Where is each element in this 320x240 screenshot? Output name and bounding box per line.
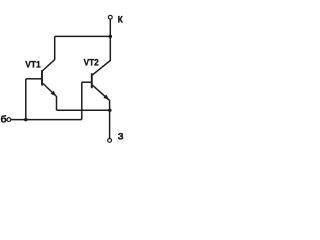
wire: VT1 emitter down segment bbox=[56, 96, 58, 110]
terminal K circle bbox=[108, 15, 112, 19]
wire: base bus from b terminal bbox=[11, 119, 82, 121]
transistor VT1 base bar bbox=[41, 70, 43, 86]
transistor VT1 collector lead bbox=[43, 36, 55, 70]
junction dot: collector bus / K bbox=[109, 35, 113, 39]
transistor VT1 base lead bbox=[26, 78, 41, 80]
terminal b circle bbox=[7, 118, 11, 122]
terminal E circle bbox=[108, 139, 112, 143]
wire: base vertical to VT1 bbox=[25, 79, 27, 120]
transistor VT2 emitter arrowhead bbox=[103, 95, 109, 100]
junction dot: base bus / VT1 base bbox=[24, 118, 28, 122]
transistor VT2 collector lead bbox=[93, 36, 111, 74]
transistor VT1 emitter lead bbox=[43, 84, 57, 97]
svg-text:VT1: VT1 bbox=[25, 60, 41, 71]
wire: VT2 emitter down to E terminal bbox=[109, 100, 111, 138]
wire: K terminal lead bbox=[109, 19, 111, 36]
transistor VT2 base lead bbox=[82, 81, 91, 83]
wire: base vertical to VT2 bbox=[81, 82, 83, 119]
transistor VT2 base bar bbox=[91, 73, 93, 88]
wire: emitter tie horizontal bbox=[57, 109, 110, 111]
svg-text:VT2: VT2 bbox=[84, 58, 99, 69]
svg-text:К: К bbox=[118, 15, 124, 25]
transistor VT2 emitter lead bbox=[93, 85, 110, 100]
transistor VT1 emitter arrowhead bbox=[51, 91, 57, 96]
junction dot: emitter tie / E lead bbox=[108, 108, 112, 112]
svg-text:б: б bbox=[1, 114, 7, 126]
wire: top collector bus bbox=[55, 35, 111, 37]
svg-text:З: З bbox=[118, 131, 124, 142]
